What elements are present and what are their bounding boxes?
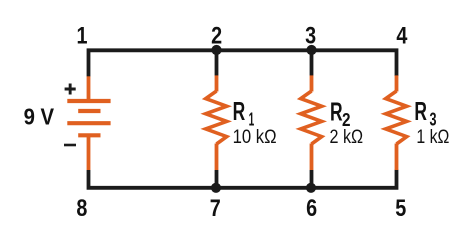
svg-text:8: 8 [76,195,87,222]
node 2 junction dot [211,45,221,55]
svg-text:5: 5 [395,195,406,222]
battery plus sign [65,84,76,95]
resistor R2 top lead [310,75,314,91]
battery B1 plate long top [67,99,110,103]
battery B1 plate long lower [67,121,110,125]
svg-text:2 kΩ: 2 kΩ [330,127,364,148]
wire bottom bus (node8-7-6-5) [89,170,397,188]
battery B1 plate short upper [78,109,100,113]
svg-text:7: 7 [210,195,221,222]
node 6 junction dot [306,183,316,193]
wire R2 bottom black stub [310,170,314,188]
battery B1 bottom lead [87,135,91,170]
svg-text:1: 1 [77,22,88,49]
resistor R2 zigzag [301,91,322,144]
svg-text:10 kΩ: 10 kΩ [233,127,277,148]
svg-text:4: 4 [396,22,407,49]
svg-text:R: R [330,98,343,126]
svg-text:3: 3 [305,22,316,49]
resistor R3 zigzag [386,91,407,144]
node 3 junction dot [306,45,316,55]
battery minus sign [64,144,76,147]
resistor R3 top lead [395,75,399,91]
resistor R1 bottom lead [215,144,219,171]
svg-text:2: 2 [211,22,222,49]
wire R1 top black stub [215,50,219,76]
node 7 junction dot [211,183,221,193]
wire top bus (node1-2-3-4) [89,50,397,76]
svg-text:1 kΩ: 1 kΩ [416,127,449,148]
wire R1 bottom black stub [215,170,219,188]
svg-text:9 V: 9 V [24,104,55,130]
svg-text:R: R [414,98,427,126]
resistor R2 bottom lead [310,144,314,171]
battery B1 plate short bottom [78,133,100,137]
svg-text:6: 6 [306,195,317,222]
resistor R1 top lead [215,75,219,91]
resistor R1 zigzag [206,91,227,144]
resistor R3 bottom lead [395,144,399,171]
battery B1 top lead [87,76,91,100]
svg-text:R: R [233,98,246,126]
wire R2 top black stub [310,50,314,76]
